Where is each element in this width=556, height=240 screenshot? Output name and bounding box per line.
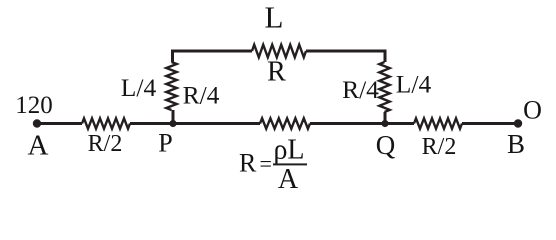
- node Q: [381, 120, 388, 127]
- svg-text:L: L: [265, 0, 284, 35]
- svg-text:R: R: [239, 149, 257, 178]
- wire resistor R/4 left to top corner: [171, 51, 174, 62]
- svg-text:R/4: R/4: [342, 75, 379, 104]
- wire top right corner down to resistor R/4 right: [384, 51, 387, 62]
- wire A to R/2 left: [39, 122, 82, 125]
- svg-text:A: A: [278, 164, 299, 195]
- node B: [514, 119, 522, 127]
- resistor R/4 right vertical: [379, 62, 389, 112]
- svg-text:L/4: L/4: [121, 73, 157, 102]
- svg-text:R/2: R/2: [88, 131, 123, 157]
- svg-text:R/4: R/4: [183, 81, 220, 110]
- svg-text:R/2: R/2: [422, 134, 457, 160]
- resistor R/2 right: [414, 118, 462, 128]
- node A: [33, 119, 41, 127]
- node P: [169, 120, 176, 127]
- svg-text:R: R: [267, 57, 286, 88]
- resistor R/4 left vertical: [166, 62, 176, 110]
- wire resistor R top to top right corner: [306, 50, 387, 53]
- formula fraction bar: [273, 163, 307, 165]
- wire top left corner to resistor R top: [171, 50, 252, 53]
- svg-text:L/4: L/4: [396, 70, 432, 99]
- wire node P to middle resistor: [173, 122, 260, 125]
- wire R/2 right to node B: [462, 122, 518, 125]
- wire node P up to resistor R/4 left: [172, 110, 175, 124]
- svg-text:120: 120: [15, 92, 53, 119]
- svg-text:Q: Q: [376, 130, 396, 160]
- resistor R middle: [260, 118, 310, 128]
- wire resistor R/4 right to node Q: [384, 112, 387, 124]
- svg-text:=: =: [260, 151, 272, 176]
- wire node Q to R/2 right: [385, 122, 414, 125]
- wire R/2 left to node P: [130, 122, 173, 125]
- svg-text:A: A: [28, 130, 49, 162]
- wire middle resistor to node Q: [310, 122, 385, 125]
- svg-text:O: O: [523, 96, 542, 125]
- svg-text:ρL: ρL: [273, 135, 304, 166]
- resistor R top: [252, 45, 306, 58]
- svg-text:P: P: [158, 129, 172, 158]
- resistor R/2 left: [82, 118, 130, 128]
- svg-text:B: B: [507, 129, 525, 159]
